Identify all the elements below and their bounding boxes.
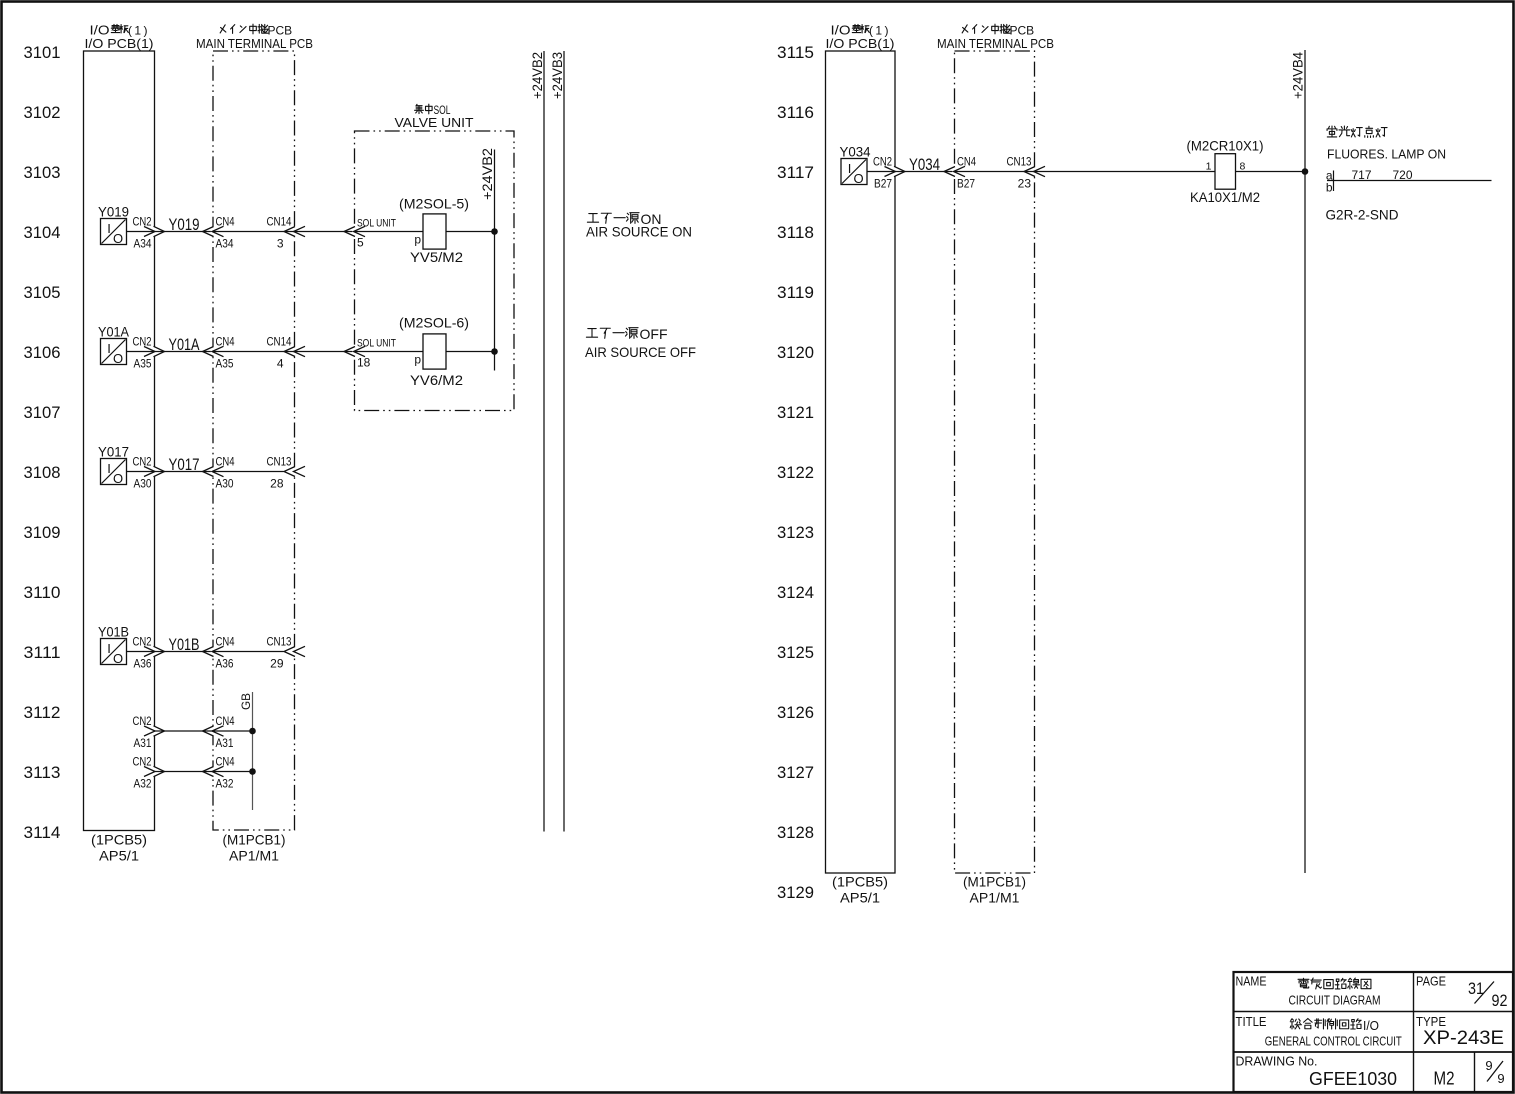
svg-text:XP-243E: XP-243E [1423, 1028, 1504, 1049]
wire CN14 to valve unit row 3106 [213, 351, 295, 353]
svg-text:CN4: CN4 [216, 455, 235, 469]
svg-text:3114: 3114 [24, 823, 61, 842]
svg-text:3120: 3120 [777, 343, 814, 362]
svg-text:(M2SOL-5): (M2SOL-5) [399, 196, 469, 212]
wire Y01B I/O to MAIN [152, 647, 156, 657]
svg-text:23: 23 [1018, 177, 1032, 191]
wire Y017 I/O to MAIN [152, 467, 156, 477]
svg-text:AIR SOURCE ON: AIR SOURCE ON [586, 224, 692, 240]
+24VB4 bus line [1304, 50, 1306, 873]
svg-text:3102: 3102 [24, 103, 61, 122]
label I/O基板(1) left [111, 24, 119, 32]
svg-text:DRAWING No.: DRAWING No. [1236, 1053, 1318, 1068]
svg-text:Y034: Y034 [840, 144, 871, 160]
svg-text:3126: 3126 [777, 703, 814, 722]
svg-text:A30: A30 [134, 477, 152, 491]
svg-text:I: I [107, 461, 111, 476]
svg-text:717: 717 [1352, 168, 1372, 182]
svg-text:O: O [853, 171, 863, 186]
svg-text:3128: 3128 [777, 823, 814, 842]
label 蛍光灯点灯 [1327, 126, 1337, 137]
svg-text:I: I [107, 341, 111, 356]
junction dot row 3104 [491, 228, 498, 235]
junction dot +24VB4 [1302, 168, 1309, 175]
connector CN13/23 right [1032, 167, 1036, 177]
svg-text:CN2: CN2 [133, 335, 152, 349]
wire YV5 to +24VB2 [446, 231, 495, 233]
svg-text:18: 18 [357, 356, 371, 370]
svg-text:92: 92 [1492, 991, 1508, 1010]
label メイン中継PCB right [962, 25, 968, 33]
svg-text:3105: 3105 [24, 283, 61, 302]
svg-text:AP5/1: AP5/1 [840, 890, 880, 906]
svg-text:(M1PCB1): (M1PCB1) [223, 832, 286, 848]
svg-text:CN4: CN4 [216, 335, 235, 349]
svg-text:CN4: CN4 [957, 155, 976, 169]
svg-text:I/O PCB(1): I/O PCB(1) [826, 36, 895, 51]
svg-text:9: 9 [1485, 1058, 1492, 1073]
svg-text:A30: A30 [216, 477, 234, 491]
svg-text:3117: 3117 [777, 163, 814, 182]
svg-text:I: I [848, 161, 852, 176]
svg-text:+24VB4: +24VB4 [1291, 52, 1306, 99]
svg-text:I/O PCB(1): I/O PCB(1) [85, 36, 154, 51]
svg-text:28: 28 [270, 477, 284, 491]
svg-text:FLUORES. LAMP ON: FLUORES. LAMP ON [1327, 147, 1446, 162]
connector CN14/4 [292, 347, 296, 357]
GB ground line [252, 692, 254, 810]
svg-text:I/O: I/O [1363, 1018, 1379, 1033]
svg-text:CN14: CN14 [267, 215, 292, 229]
svg-text:CN2: CN2 [133, 755, 152, 769]
+24VB3 bus line [563, 51, 565, 832]
svg-text:A34: A34 [134, 237, 152, 251]
connector CN4/A36 [211, 647, 215, 657]
wire to solenoid YV6 [355, 351, 424, 353]
svg-text:GB: GB [239, 693, 253, 710]
svg-text:+24VB3: +24VB3 [550, 52, 565, 99]
label 集中SOL [415, 104, 424, 113]
svg-text:3111: 3111 [24, 643, 61, 662]
svg-text:3112: 3112 [24, 703, 61, 722]
svg-text:YV5/M2: YV5/M2 [410, 249, 463, 265]
svg-text:4: 4 [277, 357, 284, 371]
svg-text:3118: 3118 [777, 223, 814, 242]
svg-text:I: I [107, 221, 111, 236]
svg-text:3116: 3116 [777, 103, 814, 122]
svg-text:CN13: CN13 [267, 635, 292, 649]
svg-text:CN4: CN4 [216, 635, 235, 649]
connector CN14/3 [292, 227, 296, 237]
svg-text:3108: 3108 [24, 463, 61, 482]
svg-text:OFF: OFF [640, 326, 668, 342]
svg-text:CN2: CN2 [133, 215, 152, 229]
svg-text:Y019: Y019 [169, 216, 200, 234]
svg-text:3115: 3115 [777, 43, 814, 62]
svg-text:VALVE UNIT: VALVE UNIT [395, 115, 474, 130]
svg-text:AIR SOURCE OFF: AIR SOURCE OFF [585, 344, 696, 360]
wire relay to +24VB4 [1236, 171, 1306, 173]
svg-text:3125: 3125 [777, 643, 814, 662]
svg-text:CN4: CN4 [216, 215, 235, 229]
svg-text:GENERAL CONTROL CIRCUIT: GENERAL CONTROL CIRCUIT [1265, 1034, 1402, 1049]
svg-text:A35: A35 [216, 357, 234, 371]
annotation air source on [587, 214, 598, 223]
connector CN13/29 [292, 647, 296, 657]
connector CN4/B27 right [952, 167, 956, 177]
svg-text:AP1/M1: AP1/M1 [970, 890, 1020, 906]
svg-text:3121: 3121 [777, 403, 814, 422]
wire Y034 I/O to MAIN right [893, 167, 897, 177]
svg-text:CN4: CN4 [216, 714, 235, 728]
svg-text:CN13: CN13 [1007, 155, 1032, 169]
svg-text:A32: A32 [134, 777, 152, 791]
svg-text:MAIN TERMINAL PCB: MAIN TERMINAL PCB [196, 36, 313, 51]
svg-text:Y034: Y034 [909, 156, 940, 174]
title block frame [1234, 972, 1514, 1092]
svg-text:(1PCB5): (1PCB5) [832, 874, 888, 890]
svg-text:b: b [1326, 181, 1333, 195]
svg-text:9: 9 [1497, 1071, 1504, 1086]
svg-text:3123: 3123 [777, 523, 814, 542]
svg-text:O: O [113, 351, 123, 366]
svg-text:CN2: CN2 [873, 155, 892, 169]
svg-text:+24VB2: +24VB2 [480, 148, 495, 200]
svg-text:PAGE: PAGE [1416, 974, 1446, 989]
wire CN14 to valve unit row 3104 [213, 231, 295, 233]
svg-text:Y01A: Y01A [169, 336, 200, 354]
svg-text:TYPE: TYPE [1416, 1014, 1446, 1029]
annotation air source off [586, 329, 597, 338]
svg-text:YV6/M2: YV6/M2 [410, 372, 463, 388]
svg-text:3101: 3101 [24, 43, 61, 62]
svg-text:I: I [107, 641, 111, 656]
junction dot row 3106 [491, 348, 498, 355]
svg-text:A35: A35 [134, 357, 152, 371]
valve unit box [355, 131, 515, 411]
svg-text:p: p [414, 233, 421, 247]
svg-text:CN2: CN2 [133, 455, 152, 469]
label I/O基板(1) right [852, 24, 860, 32]
svg-text:A31: A31 [216, 736, 234, 750]
I/O PCB(1) box left [84, 51, 155, 831]
MAIN TERMINAL PCB box left [213, 51, 295, 830]
svg-text:CN2: CN2 [133, 635, 152, 649]
svg-text:3119: 3119 [777, 283, 814, 302]
svg-text:Y019: Y019 [98, 204, 129, 220]
I/O PCB(1) box right [826, 51, 896, 873]
svg-text:Y01A: Y01A [98, 324, 130, 340]
svg-text:O: O [113, 471, 123, 486]
svg-text:3103: 3103 [24, 163, 61, 182]
svg-text:3: 3 [277, 237, 284, 251]
svg-text:3129: 3129 [777, 883, 814, 902]
svg-text:AP5/1: AP5/1 [99, 848, 139, 864]
svg-text:1: 1 [1206, 161, 1212, 173]
svg-text:B27: B27 [957, 177, 975, 191]
wire CN13 to relay coil [955, 171, 1035, 173]
svg-text:3124: 3124 [777, 583, 814, 602]
row A32 wire [152, 767, 156, 777]
svg-text:5: 5 [357, 236, 364, 250]
svg-text:Y01B: Y01B [169, 636, 200, 654]
svg-text:CN4: CN4 [216, 755, 235, 769]
svg-text:3104: 3104 [24, 223, 61, 242]
svg-text:A36: A36 [216, 657, 234, 671]
svg-text:O: O [113, 231, 123, 246]
svg-text:GFEE1030: GFEE1030 [1309, 1069, 1397, 1089]
connector CN4/A34 [211, 227, 215, 237]
svg-text:MAIN TERMINAL PCB: MAIN TERMINAL PCB [937, 36, 1054, 51]
svg-text:720: 720 [1393, 168, 1413, 182]
svg-text:Y017: Y017 [98, 444, 129, 460]
svg-text:3113: 3113 [24, 763, 61, 782]
svg-text:O: O [113, 651, 123, 666]
title block dividers [1234, 1011, 1514, 1013]
svg-text:G2R-2-SND: G2R-2-SND [1326, 207, 1399, 223]
svg-text:AP1/M1: AP1/M1 [229, 848, 279, 864]
MAIN TERMINAL PCB box right [955, 51, 1035, 873]
svg-text:3110: 3110 [24, 583, 61, 602]
svg-text:CIRCUIT DIAGRAM: CIRCUIT DIAGRAM [1289, 993, 1381, 1008]
svg-text:29: 29 [270, 657, 284, 671]
svg-text:3107: 3107 [24, 403, 61, 422]
connector CN4/A30 [211, 467, 215, 477]
svg-text:(M2CR10X1): (M2CR10X1) [1187, 138, 1264, 154]
svg-text:M2: M2 [1434, 1069, 1455, 1089]
svg-text:CN2: CN2 [133, 714, 152, 728]
junction dot A31-GB [249, 728, 256, 735]
svg-text:(M2SOL-6): (M2SOL-6) [399, 315, 469, 331]
svg-text:(M1PCB1): (M1PCB1) [963, 874, 1026, 890]
svg-text:8: 8 [1240, 161, 1246, 173]
wire to solenoid YV5 [355, 231, 424, 233]
row A31 wire [152, 726, 156, 736]
svg-text:CN13: CN13 [267, 455, 292, 469]
connector CN4/A35 [211, 347, 215, 357]
svg-text:3127: 3127 [777, 763, 814, 782]
connector CN13/28 [292, 467, 296, 477]
wire YV6 to +24VB2 [446, 351, 495, 353]
svg-text:(1PCB5): (1PCB5) [91, 832, 147, 848]
svg-text:p: p [414, 353, 421, 367]
svg-text:A34: A34 [216, 237, 234, 251]
junction dot A32-GB [249, 768, 256, 775]
svg-text:3106: 3106 [24, 343, 61, 362]
svg-text:B27: B27 [874, 177, 892, 191]
svg-text:Y017: Y017 [169, 456, 200, 474]
svg-text:Y01B: Y01B [98, 624, 129, 640]
svg-text:3109: 3109 [24, 523, 61, 542]
svg-text:CN14: CN14 [267, 335, 292, 349]
+24VB2 bus line [543, 51, 545, 832]
svg-text:3122: 3122 [777, 463, 814, 482]
svg-text:A32: A32 [216, 777, 234, 791]
svg-text:NAME: NAME [1236, 974, 1267, 989]
svg-text:A36: A36 [134, 657, 152, 671]
svg-text:TITLE: TITLE [1236, 1014, 1267, 1029]
label メイン中継PCB left [220, 25, 226, 33]
svg-text:A31: A31 [134, 736, 152, 750]
svg-text:+24VB2: +24VB2 [530, 52, 545, 99]
svg-text:KA10X1/M2: KA10X1/M2 [1190, 189, 1260, 205]
wire Y01A I/O to MAIN [152, 347, 156, 357]
+24VB2 line inside valve unit [494, 150, 496, 371]
wire Y019 I/O to MAIN [152, 227, 156, 237]
